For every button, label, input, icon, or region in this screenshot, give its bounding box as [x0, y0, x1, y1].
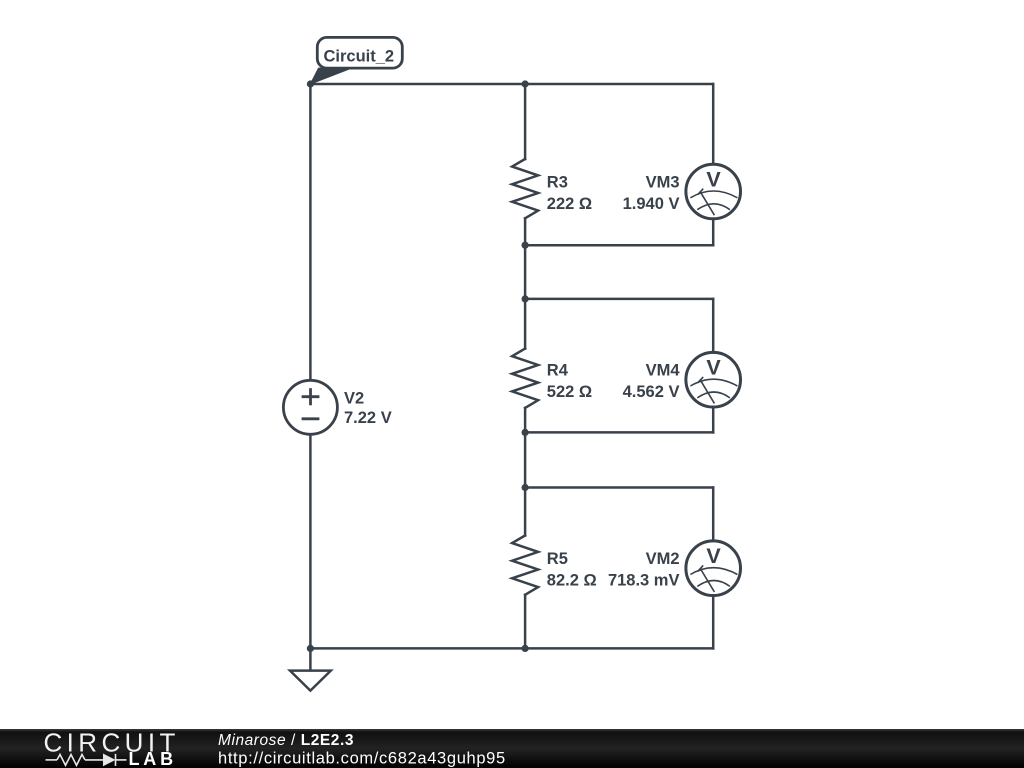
ground stem	[309, 648, 312, 670]
svg-text:1.940 V: 1.940 V	[623, 195, 680, 213]
node junction ground	[307, 645, 314, 652]
VM2 label	[608, 550, 680, 590]
wire middle column section1 top lead	[524, 84, 527, 159]
svg-text:R4: R4	[547, 362, 569, 380]
wire R4 bottom lead	[524, 408, 527, 433]
svg-text:82.2 Ω: 82.2 Ω	[547, 572, 597, 590]
wire bottom rail	[310, 647, 713, 650]
svg-text:4.562 V: 4.562 V	[623, 383, 680, 401]
svg-text:718.3 mV: 718.3 mV	[608, 572, 680, 590]
svg-text:VM4: VM4	[646, 362, 681, 380]
wire section3 top rail	[525, 486, 713, 489]
node A top-left junction	[307, 80, 314, 87]
svg-text:Circuit_2: Circuit_2	[324, 48, 395, 66]
svg-text:V: V	[706, 544, 721, 568]
svg-text:VM3: VM3	[646, 174, 680, 192]
wire VM2 bottom lead	[712, 595, 715, 648]
voltmeter VM2	[686, 541, 741, 596]
wire R3 bottom lead	[524, 218, 527, 245]
voltmeter VM4	[686, 352, 741, 407]
wire VM4 bottom lead	[712, 407, 715, 432]
voltage source V2	[283, 380, 337, 434]
wire VM3 bottom lead	[712, 219, 715, 245]
wire R4 top lead	[524, 299, 527, 349]
svg-text:V: V	[706, 168, 721, 192]
CircuitLab logo	[44, 728, 180, 768]
R4 label	[547, 362, 592, 402]
VM4 label	[623, 362, 681, 402]
resistor R5 zigzag	[512, 536, 538, 595]
wire VM3 top lead	[712, 84, 715, 164]
wire middle column between section1 and section2	[524, 245, 527, 299]
net flag Circuit_2	[310, 37, 402, 84]
wire R5 bottom lead	[524, 595, 527, 649]
svg-text:V2: V2	[344, 389, 364, 407]
wire VM4 top lead	[712, 299, 715, 353]
svg-text:Minarose / L2E2.3: Minarose / L2E2.3	[218, 732, 354, 749]
svg-text:R3: R3	[547, 174, 568, 192]
node junction section3 top	[522, 484, 529, 491]
wire section2 top rail	[525, 298, 713, 301]
node junction section2 top	[522, 295, 529, 302]
svg-text:R5: R5	[547, 550, 568, 568]
wire middle column between section2 and section3	[524, 432, 527, 487]
node junction top middle	[522, 80, 529, 87]
svg-text:LAB: LAB	[129, 749, 177, 768]
ground symbol	[290, 671, 331, 691]
V2 label	[344, 389, 392, 427]
wire left vertical lower	[309, 434, 312, 648]
resistor R3 zigzag	[512, 159, 538, 218]
svg-text:222 Ω: 222 Ω	[547, 195, 592, 213]
svg-text:http://circuitlab.com/c682a43g: http://circuitlab.com/c682a43guhp95	[218, 750, 506, 768]
svg-text:7.22 V: 7.22 V	[344, 409, 392, 427]
svg-text:522 Ω: 522 Ω	[547, 383, 592, 401]
footer bar	[0, 729, 1024, 768]
node junction section2 bottom	[522, 429, 529, 436]
wire R5 top lead	[524, 488, 527, 536]
svg-text:V: V	[706, 356, 721, 380]
R3 label	[547, 174, 592, 214]
wire left vertical upper	[309, 84, 312, 380]
voltmeter VM3	[686, 164, 741, 219]
wire VM2 top lead	[712, 488, 715, 542]
wire top rail	[310, 83, 713, 86]
resistor R4 zigzag	[512, 349, 538, 408]
wire section2 bottom rail	[525, 431, 713, 434]
node junction section1 bottom	[522, 242, 529, 249]
svg-text:VM2: VM2	[646, 550, 680, 568]
VM3 label	[623, 174, 680, 214]
R5 label	[547, 550, 597, 590]
node junction section3 bottom	[522, 645, 529, 652]
wire section1 bottom rail	[525, 244, 713, 247]
